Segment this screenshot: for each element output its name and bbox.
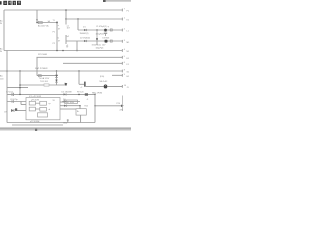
svg-text:b: b: [58, 37, 59, 39]
connector pin 3: [122, 40, 130, 44]
dark mark near R12: [15, 108, 17, 111]
wire switch line y75.6: [37, 75, 58, 77]
IC1 pin stub left 2: [17, 110, 27, 112]
svg-text:P1: P1: [53, 32, 55, 34]
node junction x97 y30: [96, 29, 98, 31]
node junction x20 y85: [19, 84, 21, 86]
photocoupler chain vertical: [56, 71, 58, 85]
wire osc line y105.7: [60, 105, 80, 107]
connector pin 1: [122, 18, 130, 22]
svg-text:TV-5A 125V: TV-5A 125V: [39, 77, 50, 80]
svg-text:(FG): (FG): [100, 76, 104, 78]
node junction x7 y71: [6, 70, 8, 72]
svg-text:cp: cp: [49, 103, 51, 105]
wire control line y101: [7, 101, 26, 103]
node junction x66 y50: [62, 50, 64, 52]
wire ground bus y122: [7, 122, 95, 124]
IC1 pin stub right to label: [60, 101, 65, 103]
zener ZD2: [110, 40, 112, 42]
wire line 9 short: [112, 74, 122, 76]
diode D6: [64, 100, 67, 102]
wire vertical x80: [79, 106, 81, 109]
photocoupler diode 1 bar: [55, 76, 58, 78]
svg-text:D2 1N4002: D2 1N4002: [80, 38, 91, 40]
wire stub y87.6 left: [7, 87, 28, 89]
wire ground bus y125: [12, 124, 63, 126]
svg-text:+: +: [107, 24, 109, 28]
neon lamp NE1 body: [104, 85, 107, 89]
svg-text:R9 120: R9 120: [77, 92, 84, 94]
wire primary top line: [37, 22, 57, 24]
transformer T1 secondary winding seg B: [65, 35, 67, 44]
connector pin 10: [122, 85, 129, 89]
wire line 4 return: [4, 50, 122, 52]
capacitor C2 blob: [105, 40, 108, 43]
capacitor C8: [12, 100, 14, 102]
IC1 inner block 5: [38, 113, 48, 117]
capacitor C11 vertical: [96, 30, 98, 40]
node junction x95 y105.8: [94, 105, 96, 107]
fuse F1: [38, 21, 42, 23]
IC1 inner wire b: [35, 108, 39, 110]
resistor R11: [44, 84, 49, 86]
wire vertical x80.6 to ground: [80, 115, 82, 122]
IC1 inner block 3: [29, 107, 35, 111]
svg-text:100µF(2): 100µF(2): [96, 33, 104, 35]
node junction x79 y71: [78, 70, 80, 72]
photocoupler diode 2 bar: [55, 81, 58, 83]
transformer T1 secondary winding: [65, 10, 67, 25]
svg-text:D5 1S1588: D5 1S1588: [62, 92, 73, 94]
wire osc line y101 right: [62, 101, 80, 103]
wire output line y105.8: [95, 105, 122, 107]
svg-text:µPC1093: µPC1093: [31, 100, 39, 102]
wire drop to fuse line: [36, 10, 38, 23]
bottom separator band: [0, 127, 131, 129]
switch SW1 body: [38, 75, 41, 77]
wire control line y94: [7, 93, 95, 95]
wire secondary top tap: [66, 18, 122, 20]
connector pin 2: [122, 29, 129, 33]
node junction x95 y94: [94, 94, 96, 96]
zener ZD1: [110, 29, 112, 31]
node junction x57 y50: [56, 50, 58, 52]
diode D1: [84, 29, 87, 31]
IC1 inner block 4: [40, 107, 47, 111]
photocoupler diode 1: [55, 75, 58, 77]
svg-text:P24: P24: [117, 103, 120, 105]
svg-text:NE-2 AC: NE-2 AC: [100, 80, 108, 83]
driver box: [76, 109, 86, 115]
svg-text:AC125V 1A: AC125V 1A: [38, 24, 49, 27]
wire vertical x37 to switch line: [36, 71, 38, 76]
IC1 pin stub right 2: [60, 108, 76, 110]
wire output line 2: [78, 29, 122, 31]
svg-text:OSC FRG: OSC FRG: [65, 102, 74, 104]
wire line 6: [63, 62, 122, 64]
svg-text:C7 0.01: C7 0.01: [6, 91, 14, 93]
wire line 5: [37, 56, 123, 58]
capacitor C1 body: [104, 32, 107, 36]
title text 図1 電源回路 (top-left caption): [0, 1, 21, 5]
wire line 8 bottom ac: [0, 70, 122, 72]
ground stub x67.8: [67, 119, 69, 122]
node junction x79 y94: [78, 94, 80, 96]
svg-text:SW1 POWER: SW1 POWER: [35, 68, 48, 70]
svg-text:D3 RD6: D3 RD6: [103, 38, 110, 40]
wire left vertical x7 lower: [6, 51, 8, 123]
connector E tail: [121, 96, 123, 112]
resistor R12: [11, 109, 14, 112]
svg-text:1S2076 (2): 1S2076 (2): [92, 45, 102, 47]
node junction x57 y22.5: [56, 22, 58, 24]
IC1 inner block 2: [40, 101, 47, 105]
node junction x78 y19: [77, 18, 79, 20]
wire feedback line y85: [20, 84, 65, 86]
connector pin 9: [122, 74, 130, 78]
wire vertical x37: [36, 57, 38, 71]
neon lamp NE1 top tick: [105, 84, 107, 86]
bottom band tick: [35, 129, 37, 131]
wire vertical x97: [96, 39, 98, 45]
wire vertical x20: [19, 71, 21, 94]
svg-text:GND: GND: [63, 123, 68, 125]
connector pin 4: [122, 49, 130, 53]
wire neon line y86.4: [86, 85, 123, 87]
connector pin 8: [122, 70, 130, 74]
svg-text:1N4002(2): 1N4002(2): [80, 33, 89, 35]
connector pin 6: [122, 62, 129, 66]
OSC label box: [65, 100, 78, 103]
node junction x97 y39: [96, 38, 98, 40]
wire left input vertical: [3, 10, 5, 51]
svg-text:R21 560Ω: R21 560Ω: [38, 54, 48, 56]
svg-text:R15: R15: [85, 106, 88, 108]
IC1 inner block 1: [29, 101, 35, 105]
node junction x37 y22.5: [36, 22, 38, 24]
svg-text:P2: P2: [53, 43, 55, 45]
svg-text:b2: b2: [67, 36, 69, 38]
page-crop strip top right: [103, 0, 131, 2]
IC1 pin stub left 1: [21, 104, 26, 106]
diode D2: [84, 40, 87, 42]
svg-text:C8 470p: C8 470p: [10, 99, 18, 101]
node junction x56.5 y71: [56, 70, 58, 72]
diode D6: [64, 105, 67, 107]
wire vertical x77: [76, 41, 78, 51]
connector E arrow: [121, 105, 124, 108]
IC1 box: [26, 98, 60, 120]
wire vertical x79 from ac line: [78, 71, 80, 84]
svg-text:T1: T1: [53, 20, 55, 22]
diode D5: [64, 93, 67, 95]
node junction x66 y10: [65, 9, 67, 11]
node junction x80 y105.7: [79, 105, 81, 107]
wire secondary mid tap: [66, 40, 122, 42]
node junction x20 y71: [19, 70, 21, 72]
resistor R9: [85, 93, 88, 95]
bottom band shading: [0, 130, 131, 131]
svg-text:TLR-124: TLR-124: [40, 81, 49, 83]
wire vertical x95: [94, 94, 96, 122]
wire corner y84.3: [79, 83, 84, 85]
node junction x77 y50.5: [76, 50, 78, 52]
connector pin 5: [122, 56, 130, 60]
wire vertical x21: [20, 102, 22, 105]
node junction x20 y94: [19, 94, 21, 96]
dark tick top right: [103, 0, 106, 2]
AC plug label block: [0, 75, 4, 81]
transformer T1 primary winding: [56, 23, 58, 51]
capacitor C7: [12, 93, 14, 96]
photocoupler diode 2: [55, 80, 58, 82]
capacitor C1 junction: [104, 29, 107, 32]
svg-text:-5: -5: [87, 99, 89, 101]
feedback end arrow blob: [65, 83, 68, 86]
connector pin 7: [122, 9, 130, 13]
wire top rail B+: [4, 9, 122, 11]
resistor R13 small dark body: [84, 82, 86, 87]
svg-text:100µF(2): 100µF(2): [96, 48, 104, 50]
node junction x20 y87.6: [19, 87, 21, 89]
IC1 inner wire a: [35, 102, 39, 104]
svg-text:C1 470µF(2): C1 470µF(2): [96, 26, 107, 28]
wire vertical x78: [77, 19, 79, 30]
node junction x66 y19: [65, 18, 66, 19]
